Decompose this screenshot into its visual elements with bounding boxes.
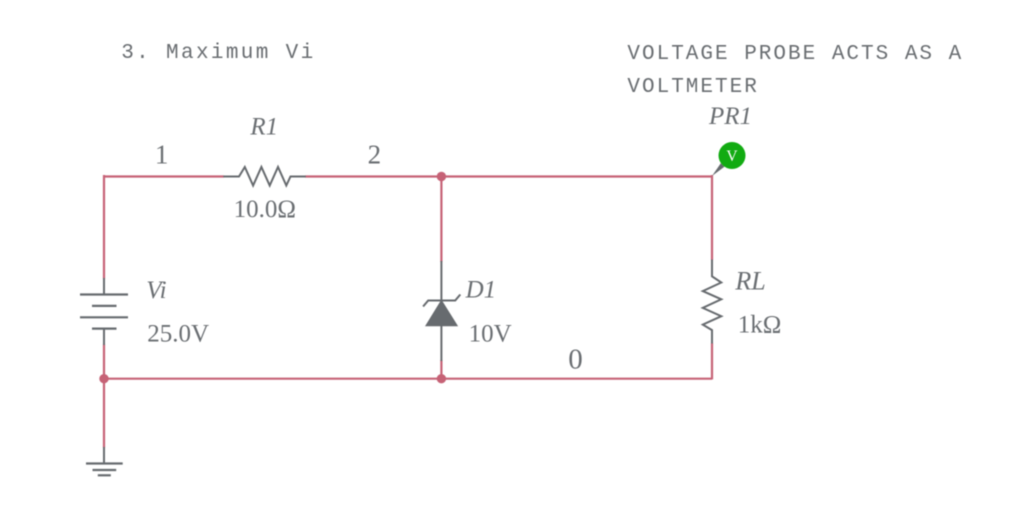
junction: bottom left at Vi: [99, 374, 108, 383]
probe PR1 green circle: [719, 142, 746, 169]
svg-text:VOLTMETER: VOLTMETER: [627, 76, 758, 99]
svg-text:0: 0: [568, 344, 583, 376]
RL value 1kohm: [738, 312, 782, 339]
svg-text:Vi: Vi: [146, 277, 166, 304]
battery Vi: plate 4 short: [92, 328, 117, 330]
junction: node 2 at diode top: [437, 172, 446, 181]
svg-text:VOLTAGE PROBE ACTS AS A: VOLTAGE PROBE ACTS AS A: [627, 43, 963, 66]
zener diode D1: anode triangle: [426, 301, 457, 326]
svg-text:R1: R1: [249, 114, 278, 141]
svg-text:V: V: [726, 148, 738, 165]
comment text line 1: [627, 43, 963, 66]
node 2 label: [368, 140, 382, 170]
zener diode D1: top lead: [440, 261, 442, 301]
probe PR1 needle: [712, 163, 724, 176]
ground: lead: [103, 447, 105, 464]
resistor R1: [223, 167, 305, 186]
wire: top horizontal left segment (node 1): [104, 175, 224, 177]
wire: left vertical lower (Vi bottom lead): [103, 344, 105, 379]
comment text line 2: [627, 76, 758, 99]
D1 value 10V: [469, 321, 512, 348]
D1 label: [465, 277, 497, 304]
battery Vi: bottom lead: [103, 329, 105, 345]
svg-text:25.0V: 25.0V: [147, 321, 209, 348]
ground: bar 1: [86, 462, 123, 464]
Vi label: [146, 277, 166, 304]
svg-text:1kΩ: 1kΩ: [738, 312, 782, 339]
svg-text:3. Maximum Vi: 3. Maximum Vi: [121, 42, 315, 65]
wire: bottom horizontal (node 0): [104, 378, 712, 380]
wire: left vertical upper (Vi top lead): [103, 175, 105, 279]
battery Vi: plate 3 long: [80, 316, 128, 318]
svg-text:RL: RL: [734, 267, 765, 296]
probe PR1 V letter: [726, 148, 738, 165]
svg-text:D1: D1: [465, 277, 497, 304]
R1 value 10.0ohm: [234, 196, 296, 223]
wire: top horizontal right segment (node 2): [305, 175, 712, 177]
node 0 label: [568, 344, 583, 376]
junction: bottom at diode: [437, 374, 446, 383]
title text: [121, 42, 315, 65]
svg-text:1: 1: [155, 140, 169, 170]
zener diode D1: cathode bar with zener tails: [423, 295, 460, 307]
Vi value 25.0V: [147, 321, 209, 348]
wire: diode branch upper: [440, 176, 442, 262]
wire: diode branch lower: [440, 360, 442, 379]
probe PR1 label: [708, 103, 752, 130]
node 1 label: [155, 140, 169, 170]
battery Vi: top lead: [103, 278, 105, 295]
ground: bar 2: [93, 469, 117, 471]
battery Vi: plate 1 long: [80, 293, 128, 295]
resistor RL (vertical): [703, 260, 722, 344]
svg-text:10.0Ω: 10.0Ω: [234, 196, 296, 223]
wire: ground drop: [103, 379, 105, 448]
R1 label: [249, 114, 278, 141]
svg-text:PR1: PR1: [708, 103, 752, 130]
wire: right vertical upper (RL top lead): [711, 175, 713, 260]
zener diode D1: bottom lead: [440, 326, 442, 361]
wire: right vertical lower (RL bottom lead): [711, 343, 713, 379]
battery Vi: plate 2 short: [92, 305, 117, 307]
svg-text:10V: 10V: [469, 321, 512, 348]
RL label: [734, 267, 765, 296]
svg-text:2: 2: [368, 140, 382, 170]
ground: bar 3: [98, 474, 111, 476]
